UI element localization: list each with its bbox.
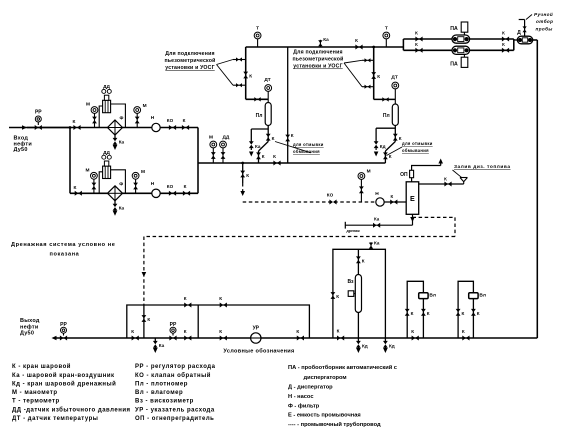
svg-text:---- - промывочный трубопровод: ---- - промывочный трубопровод [288, 421, 381, 428]
svg-text:К: К [291, 133, 294, 138]
svg-text:К: К [184, 184, 187, 189]
flow indicator UR [251, 333, 261, 343]
svg-text:УР - указатель расхода: УР - указатель расхода [135, 407, 215, 413]
svg-text:Е - емкость промывочная: Е - емкость промывочная [288, 412, 361, 418]
svg-text:К: К [355, 38, 358, 43]
svg-text:РР - регулятор расхода: РР - регулятор расхода [135, 364, 216, 370]
svg-text:К: К [74, 185, 77, 191]
svg-text:обмывания: обмывания [402, 148, 429, 153]
svg-text:для отмывки: для отмывки [293, 142, 324, 147]
pipe: middle metering line [198, 162, 385, 164]
svg-text:ДТ - датчик температуры: ДТ - датчик температуры [12, 416, 98, 422]
text: flushing callout run1 [275, 142, 311, 153]
svg-text:К: К [390, 194, 393, 199]
manual sampling valve [524, 20, 526, 37]
pipe: run1 capsule bottom [267, 126, 269, 142]
svg-text:М: М [141, 169, 145, 175]
automatic sampler PA2 [452, 46, 470, 54]
pipe: run2 jog to densitometer [374, 98, 396, 100]
svg-text:Д - диспергатор: Д - диспергатор [288, 385, 333, 391]
svg-text:К: К [219, 329, 222, 334]
pipe: tank drain [412, 214, 414, 225]
svg-text:диспергатором: диспергатором [304, 375, 347, 381]
wire: dashed flushing return long run [144, 236, 455, 238]
svg-text:К: К [415, 31, 418, 36]
svg-text:К: К [246, 173, 249, 178]
drain collection line [345, 224, 412, 226]
valve K outlet 2 [184, 336, 191, 341]
svg-text:К: К [249, 73, 252, 78]
piezometric stub upper run2 [362, 59, 374, 61]
pipe: run2 capsule bottom [394, 126, 396, 142]
svg-text:Ка: Ка [374, 241, 380, 246]
svg-text:ДТ: ДТ [391, 75, 397, 81]
svg-text:ДД -датчик избыточного давлени: ДД -датчик избыточного давления [12, 406, 131, 413]
valve K main under moisture meter 1 [412, 336, 419, 341]
valve K sampler bottom right [502, 48, 509, 53]
svg-text:дренаж: дренаж [347, 229, 361, 233]
piezometric stub lower run1 [233, 84, 246, 86]
svg-text:М: М [367, 169, 371, 175]
filter F1 [108, 120, 123, 135]
regulator RR3 on outlet [170, 327, 176, 333]
air valve Ka on header [319, 40, 321, 47]
svg-text:К: К [411, 329, 414, 334]
svg-text:Ф: Ф [119, 181, 123, 186]
pipe: moisture meter loop 2 [458, 281, 473, 338]
temperature sensor DT2 [392, 82, 399, 89]
svg-text:отбор: отбор [536, 18, 553, 24]
svg-text:К: К [184, 296, 187, 301]
flushing inlet valve K [143, 305, 145, 338]
svg-text:Вл: Вл [429, 293, 436, 299]
leader to manual sampling text [526, 15, 532, 20]
flushing pump N [376, 198, 384, 206]
svg-text:М: М [86, 102, 90, 108]
svg-text:М - манометр: М - манометр [12, 390, 58, 396]
piezometric stub lower run2 [362, 86, 374, 88]
svg-text:Для подключения: Для подключения [293, 50, 342, 56]
svg-text:Н: Н [151, 181, 155, 187]
pump N2 [152, 189, 160, 197]
leader lines to piezometric text run2 [344, 60, 362, 63]
pipe: filter branch A line [70, 127, 198, 129]
svg-text:Ду50: Ду50 [20, 331, 34, 337]
manometer M left B [91, 172, 98, 179]
svg-text:пробы: пробы [536, 26, 553, 32]
svg-text:установки и УОСГ: установки и УОСГ [293, 64, 342, 70]
svg-text:Е: Е [410, 194, 415, 203]
svg-text:К: К [477, 311, 480, 316]
svg-text:Пл: Пл [383, 113, 390, 119]
svg-text:К: К [502, 42, 505, 47]
valve K run2 riser [371, 72, 376, 79]
svg-text:показана: показана [50, 252, 80, 258]
svg-text:КО: КО [167, 118, 174, 123]
thermometer T1 [257, 39, 259, 47]
valve K at flushing tank [384, 201, 406, 203]
valve K run1 lower [266, 134, 271, 141]
flow arrow inlet [22, 125, 27, 130]
manometer M right A [134, 107, 141, 114]
svg-text:К: К [131, 329, 134, 334]
svg-text:ПА: ПА [450, 26, 458, 32]
valve K run2 drop [384, 151, 386, 163]
svg-text:РР: РР [170, 322, 177, 328]
valve K viscometer left [331, 292, 336, 299]
automatic sampler PA1 [452, 35, 470, 43]
svg-text:Вл - влагомер: Вл - влагомер [135, 390, 183, 396]
viscometer Vz [355, 275, 361, 313]
svg-text:КО - клапан обратный: КО - клапан обратный [135, 372, 211, 379]
svg-text:К: К [377, 74, 380, 79]
pipe: right return main [533, 39, 538, 41]
valve K outlet 4 [297, 336, 304, 341]
svg-text:К: К [362, 258, 365, 263]
svg-text:М: М [143, 103, 147, 109]
wire: run1 flushing riser [287, 47, 289, 163]
svg-text:Ка: Ка [323, 37, 329, 42]
piezometric stub upper run1 [233, 59, 246, 61]
valve K fuel filling [419, 183, 464, 185]
svg-text:К: К [73, 119, 76, 125]
svg-text:К: К [444, 176, 447, 181]
svg-text:обмывания: обмывания [293, 149, 320, 154]
svg-text:Ка - шаровой кран-воздушник: Ка - шаровой кран-воздушник [12, 372, 115, 379]
svg-text:К: К [219, 296, 222, 301]
funnel for fuel filling [453, 170, 463, 178]
pipe: run2 drop diagonal [385, 142, 395, 152]
temperature sensor DT1 [265, 85, 272, 92]
drain valve Kd viscometer 2 [384, 338, 386, 343]
drain valve Ka under filter F2 [114, 201, 116, 206]
pipe: oil outlet main line [54, 337, 537, 339]
svg-text:Ка: Ка [255, 144, 261, 149]
svg-text:Ка: Ка [119, 205, 125, 210]
check valve KO flushing [329, 200, 336, 205]
svg-text:Ручной: Ручной [534, 11, 553, 17]
pipe: UR bypass loop [127, 305, 310, 338]
impulse line right leg B [110, 170, 125, 194]
valve on run1 jog [254, 97, 260, 101]
svg-text:К: К [462, 329, 465, 334]
svg-text:Условные обозначения: Условные обозначения [223, 347, 294, 354]
svg-text:КО: КО [327, 193, 334, 198]
flame arrester OP [411, 178, 413, 182]
svg-text:К: К [411, 311, 414, 316]
flush takeoff valve K [242, 163, 244, 183]
pressure sensors DD block A [103, 100, 111, 112]
leader lines to piezometric text run1 [217, 60, 234, 65]
thermometer T2 [385, 39, 387, 47]
svg-text:КО: КО [167, 184, 174, 189]
drain valve Kd run1 [250, 129, 252, 142]
svg-text:Н: Н [151, 115, 155, 121]
svg-text:Ф - фильтр: Ф - фильтр [288, 402, 320, 409]
valve K sampler top right [502, 37, 509, 42]
valve K sampler bottom left [415, 48, 422, 53]
valve on run2 jog [382, 97, 388, 101]
impulse line left leg B [99, 172, 103, 194]
pipe: filter branch B line [70, 192, 198, 194]
svg-text:ПА: ПА [450, 62, 458, 68]
pump N1 [152, 123, 160, 131]
svg-text:Ка: Ка [374, 217, 380, 222]
svg-text:ОП: ОП [400, 172, 408, 178]
valve K sampler top left [415, 37, 422, 42]
svg-text:Т - термометр: Т - термометр [12, 399, 60, 405]
manometer M flushing [358, 173, 365, 180]
svg-text:РР: РР [60, 322, 67, 328]
valve K moisture right 1 [421, 309, 426, 316]
svg-text:ПА - пробоотборник автоматичес: ПА - пробоотборник автоматический с [288, 364, 397, 371]
svg-text:Д: Д [517, 30, 521, 36]
svg-text:РР: РР [35, 110, 42, 116]
wire: dashed flush drop [242, 183, 244, 195]
vent line with arrow [412, 166, 441, 171]
svg-text:Залив диз. топлива: Залив диз. топлива [454, 164, 511, 170]
svg-text:К: К [389, 154, 392, 159]
air valve Ka viscometer [370, 242, 372, 249]
svg-text:М: М [86, 167, 90, 173]
svg-text:Ф: Ф [120, 116, 124, 121]
svg-text:Кд: Кд [380, 144, 386, 149]
valve K on header [355, 45, 362, 50]
svg-text:Ка: Ка [119, 140, 125, 145]
svg-text:для отмывки: для отмывки [402, 141, 433, 146]
svg-text:Ду50: Ду50 [14, 147, 28, 153]
valve K moisture left 1 [405, 309, 410, 316]
impulse line right leg A [110, 104, 125, 128]
pipe: run1 drop diagonal [259, 142, 269, 152]
densitometer Pl2 [392, 104, 398, 126]
svg-text:Кд - кран шаровой дренажный: Кд - кран шаровой дренажный [12, 380, 116, 387]
manometer M right B [132, 172, 139, 179]
pipe: run2 riser [373, 47, 375, 99]
svg-text:Выход: Выход [20, 318, 40, 324]
drain valve Ka under filter F1 [114, 135, 116, 140]
disperser D [514, 39, 519, 41]
svg-text:К: К [296, 329, 299, 334]
moisture meter Vl1 [419, 293, 428, 299]
svg-text:К - кран шаровой: К - кран шаровой [12, 363, 71, 370]
valve K bypass 2 [220, 303, 227, 308]
svg-text:К: К [502, 31, 505, 36]
svg-text:ОП - огнепреградитель: ОП - огнепреградитель [135, 416, 214, 422]
svg-text:пьезометрической: пьезометрической [164, 57, 215, 64]
svg-text:К: К [336, 294, 339, 299]
svg-text:Т: Т [385, 26, 388, 32]
svg-text:ДД: ДД [103, 84, 110, 90]
pipe: run1 jog to densitometer [246, 98, 269, 100]
valve K branch A inlet [73, 125, 80, 130]
svg-text:ДТ: ДТ [264, 77, 270, 83]
pipe: oil inlet line [9, 127, 70, 129]
drain valve Ka outlet [154, 338, 156, 343]
pressure sensors DD block B [103, 166, 111, 178]
svg-text:ДД: ДД [223, 135, 230, 141]
wire: dashed flushing drop to outlet [143, 237, 145, 306]
pipe: moisture meter loop 1 [407, 281, 423, 338]
svg-text:К: К [427, 311, 430, 316]
svg-text:Вз: Вз [347, 279, 354, 285]
svg-text:ДД: ДД [103, 150, 110, 156]
manometer M left A [91, 107, 98, 114]
valve K branch A outlet [182, 125, 189, 130]
svg-text:К: К [184, 329, 187, 334]
drain valve Kd viscometer 1 [357, 338, 359, 343]
svg-text:Вз - вискозиметр: Вз - вискозиметр [135, 399, 194, 405]
svg-text:К: К [273, 154, 276, 159]
valve K outlet 1 [132, 336, 139, 341]
valve K viscometer center [356, 256, 361, 263]
valve K moisture left 2 [456, 309, 461, 316]
svg-text:К: К [462, 311, 465, 316]
wire: dashed flushing return top [413, 216, 456, 218]
densitometer Pl1 [265, 103, 271, 126]
svg-text:пьезометрической: пьезометрической [292, 56, 343, 63]
valve K outlet 5 [337, 336, 344, 341]
pipe: viscometer loop [333, 249, 386, 338]
svg-text:Для подключения: Для подключения [165, 51, 214, 57]
svg-text:нефти: нефти [20, 323, 38, 330]
valve K branch B inlet [75, 191, 82, 196]
valve K on middle line [273, 161, 280, 166]
wire: dashed flushing line to pump [243, 201, 376, 203]
impulse line left leg A [99, 106, 103, 128]
svg-text:К: К [183, 118, 186, 123]
valve K branch B outlet [183, 191, 190, 196]
valve K run1 riser [243, 72, 248, 79]
svg-text:К: К [262, 154, 265, 159]
pressure sensor DD on middle line [220, 141, 227, 148]
svg-text:Пл - плотномер: Пл - плотномер [135, 381, 188, 387]
valve K main under moisture meter 2 [462, 336, 469, 341]
svg-text:УР: УР [253, 326, 260, 332]
valve K bypass 1 [184, 303, 191, 308]
pipe: sampler split [402, 39, 404, 50]
drain valve Kd run2 [375, 128, 377, 141]
valve K run2 lower [393, 134, 398, 141]
valve K run1 drop [258, 151, 260, 163]
filter F2 [108, 186, 123, 201]
svg-text:Дренажная система условно не: Дренажная система условно не [11, 242, 116, 248]
svg-text:К: К [272, 136, 275, 141]
pipe: top header line [246, 46, 404, 48]
valve K run1 flushing riser [285, 135, 290, 142]
svg-text:Н - насос: Н - насос [288, 394, 314, 400]
svg-text:Вл: Вл [479, 293, 486, 299]
svg-text:К: К [147, 317, 150, 322]
check valve KO branch A [169, 125, 176, 130]
svg-text:К: К [415, 42, 418, 47]
svg-text:Кд: Кд [362, 344, 368, 349]
flushing tank E [406, 182, 419, 215]
pipe: collector vertical [197, 128, 199, 194]
manometer M on middle line [210, 141, 217, 148]
drain valve Ka on collection line [373, 223, 380, 228]
svg-text:Т: Т [256, 26, 259, 32]
check valve KO branch B [169, 191, 176, 196]
svg-text:М: М [209, 135, 213, 141]
valve K outlet 3 [220, 336, 227, 341]
pipe: run1 riser [245, 47, 247, 99]
moisture meter Vl2 [469, 293, 478, 299]
flow arrow outlet [52, 336, 57, 341]
svg-text:установки и УОСГ: установки и УОСГ [165, 65, 214, 71]
valve K moisture right 2 [471, 309, 476, 316]
svg-text:Ка: Ка [159, 343, 165, 348]
text: flushing callout run2 [387, 147, 403, 156]
wire: inlet junction vertical [69, 128, 71, 194]
regulator RR1 on inlet [35, 116, 41, 122]
svg-text:Пл: Пл [256, 113, 263, 119]
svg-text:К: К [337, 329, 340, 334]
svg-text:Н: Н [375, 191, 379, 197]
svg-text:Кд: Кд [389, 344, 395, 349]
regulator RR2 on outlet [61, 327, 67, 333]
